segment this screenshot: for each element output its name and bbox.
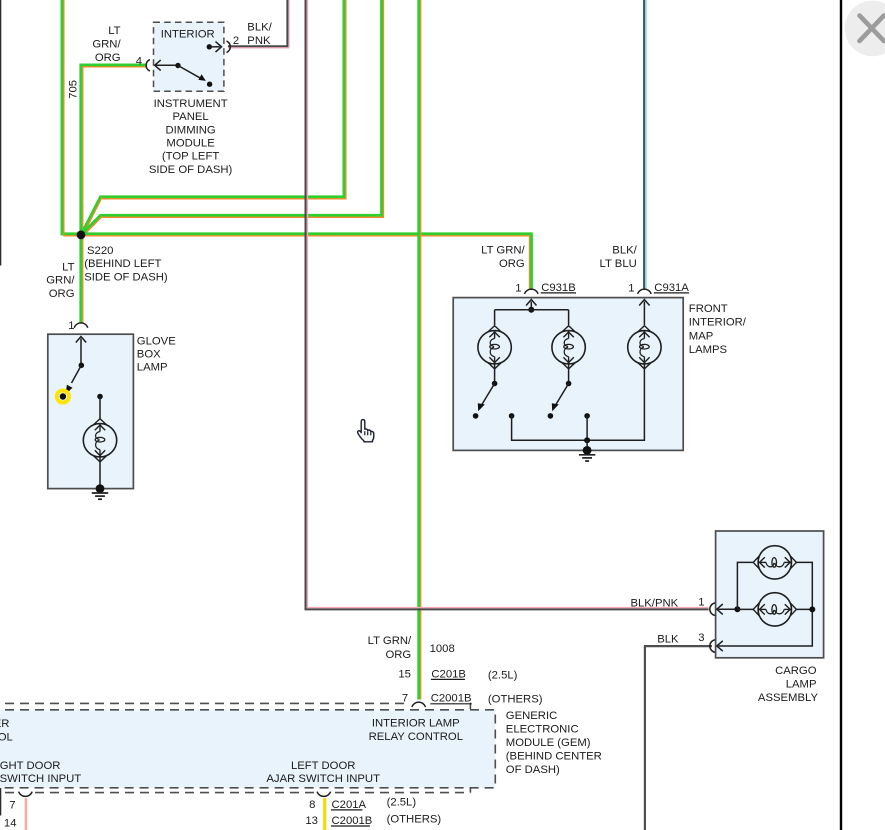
svg-text:(2.5L): (2.5L) [387, 796, 417, 808]
pin 2 contact and arrow [207, 44, 212, 49]
svg-text:1: 1 [68, 320, 74, 332]
svg-text:INTERIOR/: INTERIOR/ [689, 317, 747, 329]
svg-text:DIMMER: DIMMER [0, 718, 9, 730]
svg-text:2: 2 [233, 35, 239, 47]
svg-text:15: 15 [398, 668, 411, 680]
svg-text:ORG: ORG [95, 52, 121, 64]
wire LT GRN/ORG S220 up-right branch A [81, 0, 346, 236]
svg-text:1: 1 [628, 282, 634, 294]
svg-text:14: 14 [4, 818, 17, 830]
mouse hand cursor [358, 420, 374, 442]
svg-text:SIDE OF DASH): SIDE OF DASH) [149, 164, 233, 176]
connector pin 2 arc [227, 41, 231, 52]
svg-text:LT GRN/: LT GRN/ [368, 635, 412, 647]
connector arc glove box pin 1 [74, 323, 88, 328]
pin arrows inside [526, 300, 536, 306]
connector arc GEM bottom left [19, 792, 33, 797]
svg-text:MODULE: MODULE [166, 138, 215, 150]
svg-text:ORG: ORG [499, 258, 525, 270]
svg-text:INSTRUMENT: INSTRUMENT [154, 98, 228, 110]
wire BLK/LT BLU to C931A [644, 0, 646, 290]
svg-text:LAMP: LAMP [786, 679, 817, 691]
svg-text:AJAR SWITCH INPUT: AJAR SWITCH INPUT [266, 773, 380, 785]
svg-text:3: 3 [698, 632, 704, 644]
ground map lamps [579, 455, 595, 461]
svg-text:1008: 1008 [430, 643, 455, 655]
cargo lamp assembly box [716, 531, 824, 658]
svg-text:C2001B: C2001B [431, 692, 472, 704]
wire LT GRN/ORG S220 down to glove box lamp pin 1 [81, 235, 83, 323]
svg-text:PNK: PNK [247, 35, 271, 47]
svg-text:MAP: MAP [689, 330, 713, 342]
junction dot [528, 307, 534, 313]
svg-text:LT GRN/: LT GRN/ [481, 244, 525, 256]
svg-text:GRN/: GRN/ [92, 38, 121, 50]
svg-text:SIDE OF DASH): SIDE OF DASH) [84, 271, 168, 283]
pin 4 arrow [155, 60, 161, 70]
svg-text:CONTROL: CONTROL [0, 731, 13, 743]
svg-text:C201B: C201B [431, 668, 466, 680]
svg-text:S220: S220 [87, 245, 113, 257]
switch output contacts [509, 413, 515, 419]
svg-text:705: 705 [68, 80, 80, 99]
svg-text:RELAY CONTROL: RELAY CONTROL [369, 731, 463, 743]
svg-text:GRN/: GRN/ [46, 275, 75, 287]
svg-text:C931A: C931A [654, 282, 689, 294]
wire LT GRN/ORG S220 to C931B (front map lamps) [81, 234, 531, 290]
connector arc GEM top [412, 702, 426, 707]
wire BLK from cargo lamp pin 3 down to bottom [645, 646, 712, 830]
svg-text:LAMPS: LAMPS [689, 344, 728, 356]
ground attach dot [583, 446, 592, 455]
switch pivot [79, 363, 85, 369]
connector pin 3 arc [710, 640, 715, 653]
svg-text:DIMMING: DIMMING [165, 124, 215, 136]
svg-text:ORG: ORG [49, 288, 75, 300]
module U1 instrument panel dimming module box [154, 22, 224, 91]
svg-text:AJAR SWITCH INPUT: AJAR SWITCH INPUT [0, 773, 81, 785]
svg-text:MODULE (GEM): MODULE (GEM) [506, 737, 591, 749]
partial black wire at left edge near GEM [0, 788, 2, 816]
svg-text:(BEHIND CENTER: (BEHIND CENTER [506, 750, 602, 762]
lamp DS cargo2 [753, 593, 796, 626]
svg-text:C201A: C201A [332, 799, 367, 811]
lamp DS map1 [478, 326, 511, 369]
switch arm [72, 365, 82, 383]
internal wiring right [718, 562, 812, 646]
svg-text:ASSEMBLY: ASSEMBLY [758, 692, 819, 704]
partial black wire at left edge top [0, 0, 2, 266]
wire LT GRN/ORG S220 up-right branch B [81, 0, 384, 236]
wire BLK/PNK long vertical to cargo lamp pin 1 [306, 0, 709, 609]
front interior/map lamps box [453, 298, 683, 451]
svg-text:ORG: ORG [385, 649, 411, 661]
svg-text:INTERIOR: INTERIOR [161, 29, 215, 41]
svg-text:OF DASH): OF DASH) [506, 764, 560, 776]
GEM module box [0, 710, 495, 788]
close button [845, 1, 885, 57]
svg-text:LT: LT [108, 25, 120, 37]
wire BLK/PNK from dimmer pin 2 up [228, 0, 289, 48]
outer dashed module box (overlapping, partially hidden) [0, 702, 410, 704]
map1 switch [494, 364, 496, 384]
ground bus inside box [512, 364, 645, 441]
white casings under GEM bottom connectors [17, 791, 33, 799]
svg-text:CARGO: CARGO [775, 665, 817, 677]
svg-text:7: 7 [9, 800, 15, 812]
label instrument panel dimming module [149, 98, 233, 176]
svg-text:LAMP: LAMP [137, 362, 168, 374]
map2 switch [568, 364, 570, 384]
svg-text:(OTHERS): (OTHERS) [488, 693, 543, 705]
svg-text:8: 8 [309, 799, 315, 811]
junction dot right [809, 606, 815, 612]
svg-text:(2.5L): (2.5L) [488, 669, 518, 681]
connector pin 1 arc [710, 603, 715, 616]
internal wiring left [737, 562, 753, 609]
highlighted contact (yellow) [57, 390, 69, 402]
svg-text:GLOVE: GLOVE [137, 335, 176, 347]
svg-text:(OTHERS): (OTHERS) [387, 814, 442, 826]
svg-text:BOX: BOX [137, 349, 161, 361]
ground glove box [92, 493, 108, 499]
svg-text:PANEL: PANEL [172, 111, 208, 123]
lamp DS map3 [628, 326, 661, 369]
svg-text:(TOP LEFT: (TOP LEFT [162, 151, 219, 163]
svg-text:C2001B: C2001B [332, 815, 373, 827]
svg-text:RIGHT DOOR: RIGHT DOOR [0, 760, 60, 772]
connector arc GEM bottom yellow [317, 792, 331, 797]
svg-text:BLK/: BLK/ [247, 22, 272, 34]
switch arm with arrowhead [178, 66, 201, 79]
pin 1 arrow [717, 604, 723, 614]
svg-text:BLK/PNK: BLK/PNK [630, 597, 678, 609]
svg-text:4: 4 [136, 55, 142, 67]
svg-text:BLK/: BLK/ [612, 244, 637, 256]
ground attach dot [96, 484, 105, 493]
lamp branch contact [97, 394, 103, 400]
svg-text:GENERIC: GENERIC [506, 710, 557, 722]
lamp DS cargo1 [753, 546, 796, 579]
junction dot left [734, 606, 740, 612]
splice S220 [77, 231, 86, 240]
svg-text:13: 13 [305, 815, 318, 827]
wire 705 LT GRN/ORG left vertical [62, 0, 80, 236]
switch common contact [175, 63, 180, 68]
svg-text:7: 7 [402, 692, 408, 704]
wire LT GRN/ORG from dimming module pin 4 to S220 [81, 65, 147, 232]
switch contact to pin 2 [207, 82, 212, 87]
svg-text:ELECTRONIC: ELECTRONIC [506, 723, 579, 735]
wire PNK below GEM right door ajar [25, 797, 28, 830]
svg-text:1: 1 [515, 282, 521, 294]
lamp DS map2 [552, 326, 585, 369]
svg-text:LT: LT [62, 261, 74, 273]
svg-text:LEFT DOOR: LEFT DOOR [291, 760, 355, 772]
svg-text:(BEHIND LEFT: (BEHIND LEFT [84, 258, 161, 270]
svg-text:FRONT: FRONT [689, 303, 728, 315]
wire YEL below GEM left door ajar [323, 796, 326, 830]
wire branches inside box [495, 310, 569, 325]
pin 1 arrow inside box [76, 337, 86, 343]
svg-text:BLK: BLK [657, 634, 679, 646]
svg-text:1: 1 [698, 596, 704, 608]
page edge vertical line [840, 0, 842, 830]
lamp DS1 glove box [83, 419, 116, 462]
connector pin 4 arc [146, 60, 150, 71]
glove box lamp box [48, 334, 134, 488]
svg-text:C931B: C931B [541, 282, 576, 294]
connector C931A arc [638, 289, 652, 294]
white casing under GEM top connector [410, 700, 428, 710]
connector C931B arc [525, 289, 539, 294]
pin 3 arrow [717, 641, 723, 651]
wire LT GRN/ORG long vertical to GEM pin 15/7 [419, 0, 421, 702]
svg-text:LT BLU: LT BLU [600, 258, 637, 270]
svg-text:INTERIOR LAMP: INTERIOR LAMP [372, 717, 460, 729]
